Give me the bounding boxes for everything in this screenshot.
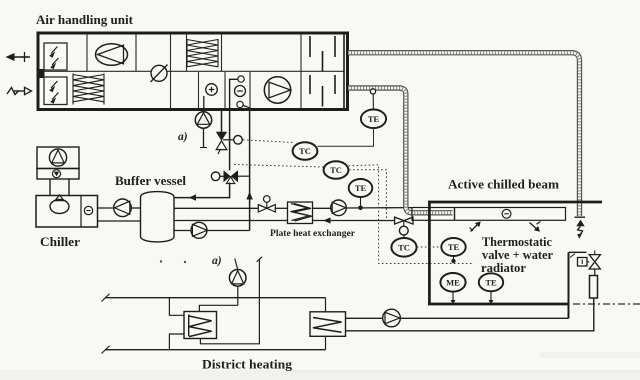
AHU section divider x301 — [300, 35, 302, 109]
air diffuser arrows below duct — [576, 220, 584, 239]
svg-text:TC: TC — [330, 165, 342, 175]
AHU section divider x136 — [135, 35, 137, 72]
radiator supply line with pump — [346, 309, 569, 327]
radiator supply riser — [569, 252, 587, 318]
label: Air handling unit — [36, 12, 134, 27]
vessel bottom line with pump — [174, 222, 250, 238]
exhaust air arrow — [6, 52, 31, 62]
sensor ME — [440, 273, 465, 304]
attenuator baffles right section — [310, 35, 344, 109]
pump below AHU heating coil — [195, 96, 211, 148]
label Buffer vessel — [115, 173, 186, 188]
svg-text:Plate heat exchanger: Plate heat exchanger — [270, 228, 356, 239]
heat exchanger HX2 — [310, 312, 346, 337]
filter bottom row — [73, 74, 104, 105]
PHE supply valve with actuator — [258, 196, 287, 212]
dotted control line valve to TC upper — [243, 140, 294, 143]
chiller supply pipe with pump — [98, 199, 140, 217]
damper box top-left — [44, 43, 67, 70]
cooling coil bottom connection — [237, 101, 250, 108]
sensor TE after PHE — [349, 179, 373, 197]
radiator valve — [589, 251, 600, 276]
svg-text:Active chilled beam: Active chilled beam — [448, 178, 559, 192]
controller TC lower — [324, 161, 349, 179]
induced air squiggle arrows — [470, 221, 541, 231]
3-way valve with actuator — [211, 170, 249, 183]
damper box bottom-left — [44, 77, 67, 105]
label a) lower — [212, 255, 222, 267]
dotted control line TC lower to room — [349, 165, 474, 264]
active chilled beam body — [412, 208, 566, 221]
AHU left border block — [37, 69, 45, 78]
scan smudge bottom — [290, 370, 640, 374]
buffer vessel — [141, 192, 175, 242]
room boundary left wall — [428, 201, 431, 305]
svg-text:TC: TC — [398, 243, 410, 253]
supply air duct pipe to beam (double line) — [348, 53, 580, 216]
svg-text:ME: ME — [446, 278, 460, 288]
plate heat exchanger — [288, 202, 313, 224]
label a) upper — [178, 131, 188, 143]
pump after PHE — [313, 200, 413, 216]
svg-text:TE: TE — [368, 114, 380, 124]
sensor tap on chilled pipe — [370, 89, 375, 110]
label Chiller — [40, 235, 80, 249]
wire AHU down to 3-way valve — [229, 110, 231, 170]
heat exchanger HX1 — [184, 312, 217, 339]
room boundary floor — [428, 303, 568, 306]
vessel return line from PHE — [174, 220, 288, 222]
radiator return — [346, 298, 594, 331]
AHU section divider x87 — [86, 35, 88, 72]
label District heating — [202, 358, 293, 372]
wire AHU cooling riser — [246, 110, 252, 231]
district heating top main — [102, 294, 326, 302]
district heating pump a) — [229, 259, 246, 306]
svg-text:Buffer vessel: Buffer vessel — [115, 173, 186, 188]
wire AHU to 2-way valve — [221, 110, 223, 132]
label Plate heat exchanger — [270, 228, 356, 239]
heating coil circle plus — [206, 84, 218, 96]
dotted control line 3way to TC lower — [234, 165, 324, 168]
chilled water pipe to beam (double line) — [348, 88, 453, 213]
svg-text:a): a) — [212, 255, 222, 267]
wire TE to TC — [318, 128, 374, 146]
2-way control valve — [216, 132, 227, 154]
svg-text:TE: TE — [355, 183, 367, 193]
cooling coil circle minus — [235, 86, 246, 97]
svg-text:Thermostatic: Thermostatic — [482, 235, 553, 249]
svg-text:Chiller: Chiller — [40, 235, 80, 249]
heat exchanger HX2 primary riser — [325, 298, 327, 350]
sensor tap circle beside valve — [223, 136, 242, 145]
junction node for TE sensor — [358, 197, 363, 210]
supply fan top row — [96, 44, 128, 66]
controller TC room — [391, 235, 416, 257]
wire 3-way valve to buffer vessel — [174, 183, 230, 201]
sensor TE on pipe — [361, 110, 386, 129]
sensor TE room upper — [441, 238, 465, 263]
svg-text:District heating: District heating — [202, 358, 293, 372]
floor dash-dot continuation — [573, 303, 640, 305]
chiller check-valve box — [37, 169, 79, 180]
hx1 secondary loop wires — [199, 257, 262, 344]
damper symbol on divider — [151, 65, 168, 83]
heating coil box top row — [187, 35, 222, 72]
radiator — [590, 276, 598, 299]
controller TC upper — [293, 142, 318, 160]
duct end cap — [575, 216, 586, 218]
AHU row divider — [40, 70, 345, 72]
room boundary top — [428, 201, 602, 204]
AHU bottom row dividers — [199, 72, 251, 109]
chiller return pipe — [98, 220, 140, 222]
district heating bottom main — [102, 346, 326, 354]
svg-text:radiator: radiator — [481, 261, 527, 275]
cooling coil top connection — [230, 76, 245, 108]
chiller main box — [36, 195, 98, 227]
svg-text:TC: TC — [299, 146, 311, 156]
label Thermostatic valve + water radiator — [481, 235, 554, 275]
svg-text:a): a) — [178, 131, 188, 143]
sensor TE room lower — [479, 273, 503, 304]
hx1 primary jumpers — [169, 298, 184, 350]
vessel supply line to valve and PHE — [174, 207, 259, 209]
AHU section divider x170 — [170, 35, 172, 109]
beam return valve — [395, 217, 413, 235]
air handling unit outer box — [38, 33, 348, 110]
svg-text:valve + water: valve + water — [482, 248, 554, 262]
return line PHE to beam valve with arrow — [313, 217, 396, 223]
chiller connector pipes — [50, 179, 69, 196]
svg-text:Air handling unit: Air handling unit — [36, 12, 134, 27]
extract fan bottom row — [264, 77, 290, 103]
thermostatic head — [578, 258, 590, 267]
chiller pump module box — [37, 147, 79, 169]
svg-text:TE: TE — [448, 242, 460, 252]
continuation dots — [160, 260, 186, 263]
dotted TC to TE room — [417, 246, 441, 248]
fresh air arrow — [7, 87, 32, 94]
label Active chilled beam — [448, 178, 559, 192]
svg-text:TE: TE — [485, 278, 497, 288]
